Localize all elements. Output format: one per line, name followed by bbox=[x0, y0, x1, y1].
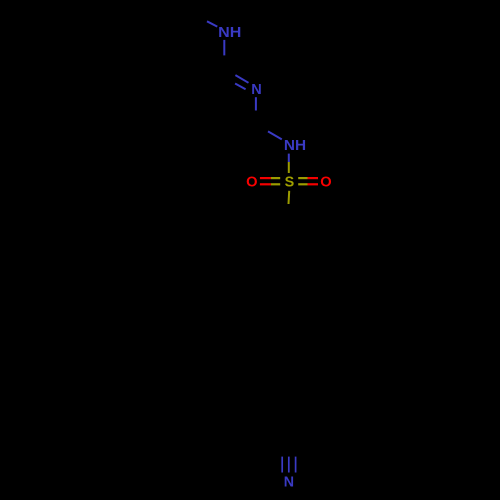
bond S=O left upper line red half bbox=[260, 177, 271, 179]
bond S=O right upper line sulfur half bbox=[298, 177, 307, 179]
bond N3-S sulfur half bbox=[288, 162, 290, 173]
bond N3-S blue half bbox=[288, 154, 290, 162]
bond N1-C1 (blue half near N1) bbox=[223, 40, 225, 56]
nitrile triple bond right line (blue half near N4) bbox=[295, 457, 297, 473]
svg-text:N: N bbox=[284, 475, 294, 491]
bond S-C4 (sulfur half) bbox=[288, 191, 291, 204]
bond S=O left upper line sulfur half bbox=[271, 177, 280, 179]
svg-text:NH: NH bbox=[284, 138, 306, 154]
bond CH3-N1 (blue half near N1) bbox=[207, 21, 217, 26]
svg-text:NH: NH bbox=[218, 25, 241, 41]
bond S=O right upper line red half bbox=[308, 177, 319, 179]
svg-text:N: N bbox=[251, 82, 261, 98]
nitrile triple bond middle line (blue half near N4) bbox=[288, 457, 290, 473]
nitrile triple bond left line (blue half near N4) bbox=[281, 457, 283, 473]
bond S=O left lower line red half bbox=[260, 183, 271, 185]
bond S=O right lower line red half bbox=[308, 183, 319, 185]
bond C1=N2 inner double line (blue half near N2) bbox=[235, 84, 246, 90]
bond C1=N2 main line (blue half near N2) bbox=[235, 75, 248, 83]
bond N2-C3 (blue half near N2) bbox=[255, 97, 257, 110]
svg-text:S: S bbox=[285, 175, 295, 191]
bond S=O right lower line sulfur half bbox=[298, 183, 307, 185]
bond S=O left lower line sulfur half bbox=[271, 183, 280, 185]
bond C3-N3 (blue half near N3) bbox=[268, 131, 282, 139]
svg-text:O: O bbox=[246, 175, 257, 191]
svg-text:O: O bbox=[320, 175, 331, 191]
